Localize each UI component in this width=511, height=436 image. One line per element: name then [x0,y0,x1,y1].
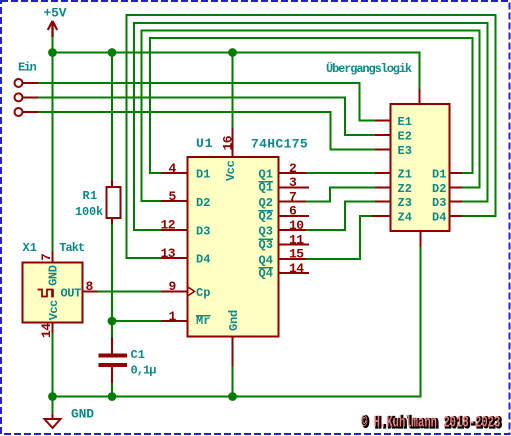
svg-text:5: 5 [169,189,177,204]
svg-text:GND: GND [47,265,61,286]
svg-text:Q2: Q2 [259,196,273,210]
svg-text:6: 6 [289,204,297,219]
svg-text:14: 14 [39,323,54,338]
svg-text:+5V: +5V [44,6,67,21]
svg-text:Z3: Z3 [398,196,412,210]
wire feedback D1 loop [150,38,473,173]
wire E1 pin stub [375,120,391,122]
node junction gnd rail at C1 [108,392,117,401]
wire X1 to ground rail [52,333,54,397]
svg-text:7: 7 [289,189,297,204]
svg-text:Z2: Z2 [398,182,412,196]
svg-text:D2: D2 [432,182,446,196]
U1 clock wedge [189,287,195,295]
svg-text:15: 15 [289,247,304,262]
svg-text:14: 14 [289,261,304,276]
svg-text:Z4: Z4 [398,211,412,225]
wire +5V symbol stem to rail [52,37,54,53]
svg-text:D4: D4 [196,253,210,267]
svg-text:OUT: OUT [61,286,82,300]
wire R1 to C1 node [111,225,113,338]
wire Q1 to Z1 [306,172,375,174]
svg-text:74HC175: 74HC175 [251,137,308,152]
connector pad input 3 [15,108,23,116]
svg-text:0,1µ: 0,1µ [131,363,157,377]
wire R1 bottom lead [111,218,113,225]
wire U1 pin 4 D1 stub [161,172,188,174]
svg-text:X1: X1 [23,241,37,255]
wire R1 top lead [111,180,113,188]
svg-text:Q4: Q4 [259,253,273,267]
svg-text:E1: E1 [398,115,412,129]
wire U1 pin 13 D4 stub [161,257,188,259]
svg-text:1: 1 [169,309,177,324]
svg-text:D1: D1 [432,168,446,182]
capacitor C1 plates [99,354,128,368]
svg-text:Takt: Takt [59,241,85,255]
wire Q4 to Z4 [306,216,372,259]
wire logic D1 pin stub [450,172,463,174]
svg-text:Gnd: Gnd [227,310,241,331]
svg-text:Ein: Ein [18,60,37,74]
wire input 1 stub [23,82,38,84]
wire logic D4 pin stub [450,215,463,217]
wire X1 pin 14 stub [52,323,54,334]
svg-text:16: 16 [221,135,236,150]
svg-text:100k: 100k [75,205,103,219]
wire C1 to ground rail [111,383,113,397]
wire ground rail bottom [53,247,421,397]
svg-text:Übergangslogik: Übergangslogik [326,60,412,76]
wire U1 pin 11 Q3n stub [279,244,310,246]
logic block U2 Uebergangslogik body [391,104,450,231]
wire +5V to X1 pin 7 [52,53,54,252]
wire logic D2 pin stub [450,186,463,188]
svg-text:D1: D1 [196,168,210,182]
ground symbol [45,419,61,428]
wire rail to R1 [111,53,113,181]
wire clock OUT to Cp [98,290,162,292]
svg-text:GND: GND [71,406,94,421]
svg-text:8: 8 [86,279,94,294]
wire logic Z3 pin stub [375,201,391,203]
wire U1 pin 10 Q3 stub [279,229,307,231]
wire input 3 to E3 [38,112,375,149]
wire gnd symbol stub [52,414,54,419]
svg-text:D3: D3 [432,196,446,210]
svg-text:3: 3 [289,175,297,190]
wire U1 pin 14 Q4n stub [279,272,310,274]
wire rail to U1 Vcc [232,53,234,129]
node junction gnd rail at U1 [228,392,237,401]
svg-text:Q4: Q4 [259,267,273,281]
wire Q3 to Z3 [306,202,375,231]
wire feedback D4 loop [127,15,496,258]
wire logic Z2 pin stub [375,186,391,188]
supply symbol +5V arrow [48,21,57,37]
wire input 1 to E1 [38,83,375,121]
svg-text:10: 10 [289,218,304,233]
svg-text:11: 11 [289,232,304,247]
wire logic Z1 pin stub [375,172,391,174]
svg-text:Cp: Cp [196,286,210,300]
svg-text:Q3: Q3 [259,238,273,252]
wire +5V rail top [53,53,420,89]
svg-text:9: 9 [169,279,177,294]
svg-text:Vcc: Vcc [224,160,238,181]
wire logic block top pin stub [419,89,421,104]
wire U1 pin 12 D3 stub [161,229,188,231]
resistor R1 body [107,187,121,218]
wire U1 pin 7 Q2 stub [279,201,307,203]
svg-text:D2: D2 [196,196,210,210]
wire X1 OUT pin 8 stub [83,290,98,292]
wire Q2 to Z2 [306,187,375,201]
wire C1 bottom lead [111,367,113,383]
IC U1 74HC175 body [188,157,279,337]
svg-text:4: 4 [169,161,177,176]
wire input 2 to E2 [38,97,375,135]
wire U1 pin 5 D2 stub [161,200,188,202]
wire input 3 stub [23,111,38,113]
node junction +5V at X1 column [48,48,57,57]
wire U1 pin 9 Cp stub [161,290,188,292]
wire X1 pin 7 stub [52,252,54,263]
oscillator X1 body [23,263,83,323]
svg-text:© H.Kuhlmann 2018-2023: © H.Kuhlmann 2018-2023 [361,414,500,432]
wire E2 pin stub [375,134,391,136]
svg-text:D4: D4 [432,211,446,225]
connector pad input 1 [15,79,23,87]
svg-text:E2: E2 [398,129,412,143]
connector pad input 2 [15,93,23,101]
wire U1 gnd to rail [232,367,234,397]
wire U1 pin 3 Q1n stub [279,186,310,188]
X1 square wave symbol [38,289,54,297]
svg-text:2: 2 [289,161,297,176]
node junction +5V at R1 column [108,48,117,57]
node junction gnd rail at X1 [48,392,57,401]
wire U1 pin 2 Q1 stub [279,172,307,174]
wire U1 pin 15 Q4 stub [279,258,307,260]
wire input 2 stub [23,96,38,98]
wire feedback D3 loop [134,23,488,230]
svg-text:R1: R1 [83,189,98,203]
svg-text:7: 7 [39,253,54,261]
wire U1 pin 1 Mr stub [161,320,188,322]
svg-text:12: 12 [161,218,176,233]
wire E3 pin stub [375,148,391,150]
wire logic D3 pin stub [450,201,463,203]
svg-text:Vcc: Vcc [47,300,61,320]
node junction reset RC to Mr [108,317,117,326]
wire feedback D2 loop [142,31,480,202]
node junction +5V at U1 Vcc column [228,48,237,57]
svg-text:13: 13 [161,246,176,261]
svg-text:C1: C1 [131,348,145,362]
svg-text:Q2: Q2 [259,209,273,223]
wire reset node to Mr [112,320,161,322]
wire logic block bottom pin stub [420,231,422,247]
svg-text:Q3: Q3 [259,225,273,239]
wire C1 top lead [111,338,113,354]
svg-text:Q1: Q1 [259,181,273,195]
wire U1 pin 16 stub [232,128,234,157]
wire logic Z4 pin stub [372,215,391,217]
wire U1 pin 6 Q2n stub [279,215,310,217]
svg-text:Q1: Q1 [259,168,273,182]
svg-text:E3: E3 [398,144,412,158]
svg-text:U1: U1 [196,136,214,151]
wire U1 pin 8 gnd stub [232,337,234,367]
svg-text:Z1: Z1 [398,168,412,182]
wire gnd symbol drop [52,397,54,415]
svg-text:D3: D3 [196,224,210,238]
